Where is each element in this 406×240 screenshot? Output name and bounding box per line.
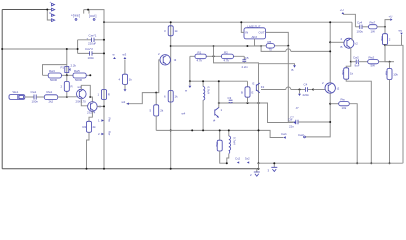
svg-text:Cx2: Cx2 xyxy=(235,157,241,161)
resistor R column104 xyxy=(98,90,110,100)
svg-text:IN: IN xyxy=(245,31,248,35)
svg-text:R1: R1 xyxy=(198,50,202,54)
wire wy output xyxy=(385,45,403,163)
wire top net to rail corner xyxy=(84,10,104,23)
svg-text:5x2: 5x2 xyxy=(245,157,250,161)
junction dot B xyxy=(87,9,89,11)
net flag +U right xyxy=(385,15,393,27)
net flag w2 xyxy=(122,100,129,105)
resistor R 389 column xyxy=(385,62,399,164)
svg-text:1W: 1W xyxy=(371,29,376,33)
resistor Rw7 xyxy=(369,21,386,34)
svg-text:F2: F2 xyxy=(261,85,265,89)
net flag w xyxy=(113,53,116,60)
transistor Tw1 2SK170 xyxy=(76,85,87,104)
wire left frame vertical xyxy=(1,10,3,169)
wire top-left net horizontal xyxy=(2,9,47,11)
svg-text:We1: We1 xyxy=(13,90,19,94)
wire column x=104 xyxy=(103,22,105,169)
svg-text:10k: 10k xyxy=(393,73,398,77)
wire column 218.8 xyxy=(218,81,220,103)
svg-text:Cw2: Cw2 xyxy=(353,55,359,59)
resistor R 10k emitter T6 xyxy=(330,98,357,164)
svg-text:100n: 100n xyxy=(88,56,95,60)
wire T2 collector up xyxy=(90,97,92,102)
wire jog down hop to T5 base column xyxy=(261,46,286,51)
wire OUT to column xyxy=(266,32,289,45)
svg-text:R2: R2 xyxy=(224,50,228,54)
transistor T4 glyph xyxy=(213,103,223,123)
inductor L1 xyxy=(203,81,210,130)
connector We input jack xyxy=(9,90,25,99)
wire T1 drain up xyxy=(81,85,90,97)
capacitor Cw1 xyxy=(31,90,39,103)
svg-text:+: + xyxy=(87,36,89,40)
wire pot loop xyxy=(43,65,67,76)
junction dot A xyxy=(46,9,48,11)
transistor T glyph column 258 xyxy=(253,64,265,164)
svg-text:1k: 1k xyxy=(129,78,133,82)
svg-text:+[we]: +[we] xyxy=(71,14,80,18)
svg-text:9uF: 9uF xyxy=(355,64,360,68)
wire T2 emitter down xyxy=(89,111,92,121)
svg-text:R: R xyxy=(108,93,110,97)
svg-text:[out]: [out] xyxy=(89,14,97,18)
svg-text:B: B xyxy=(241,91,243,95)
column x=170.7 xyxy=(170,22,172,169)
junction dot xyxy=(89,96,91,98)
junction dot 170/46 xyxy=(170,45,172,47)
svg-text:1.: 1. xyxy=(98,119,101,123)
svg-text:4.7k: 4.7k xyxy=(224,59,230,63)
net flag +U main xyxy=(340,8,356,27)
capacitor Cze2 branch xyxy=(78,52,104,54)
svg-text:Rw5: Rw5 xyxy=(74,69,80,73)
svg-text:75: 75 xyxy=(269,48,273,52)
wire cap-branch vertical xyxy=(77,40,79,54)
svg-text:2.2k: 2.2k xyxy=(71,64,77,68)
resistor R mid xyxy=(150,93,164,131)
svg-text:2.: 2. xyxy=(98,132,101,136)
capacitor C9 xyxy=(228,96,233,103)
wire T5 emitter resistor chain xyxy=(346,62,351,68)
svg-text:2SJ74: 2SJ74 xyxy=(87,111,96,115)
junction dot rail-104 xyxy=(103,21,105,23)
wire bottom right rail xyxy=(259,162,403,164)
wire T5 emitter down xyxy=(350,48,352,62)
svg-text:500R: 500R xyxy=(50,78,57,82)
svg-text:2.2m: 2.2m xyxy=(242,65,249,69)
wire base net y=89.5 xyxy=(261,89,286,91)
resistor R 247 column xyxy=(241,81,254,103)
junction dot right of Rw5 xyxy=(89,74,91,76)
ground G1 xyxy=(250,169,260,177)
net flag below xyxy=(189,81,191,85)
transistor T6 xyxy=(322,81,340,93)
resistor Rw5 xyxy=(67,69,91,82)
junction dot base net xyxy=(155,92,157,94)
svg-text:Cy4: Cy4 xyxy=(357,21,363,25)
svg-text:w2: w2 xyxy=(122,100,126,104)
net arrow flag Cw right end xyxy=(283,136,286,138)
svg-text:0.7uH: 0.7uH xyxy=(207,87,211,95)
net flag w3 with resistor xyxy=(119,53,133,92)
svg-text:LM317L/T: LM317L/T xyxy=(248,24,261,28)
resistor Rw6 xyxy=(83,121,97,132)
resistor Rw4 xyxy=(43,69,67,82)
svg-text:t2: t2 xyxy=(355,42,358,46)
wire main top rail xyxy=(104,21,352,23)
wire to flag B xyxy=(259,64,295,66)
wire T2 right to column xyxy=(97,105,104,107)
capacitor Cw2 xyxy=(351,55,368,67)
wire xyxy=(36,96,44,98)
svg-text:Cze*2: Cze*2 xyxy=(85,47,93,51)
junction dot input node xyxy=(66,96,68,98)
wire T5 base xyxy=(330,41,344,43)
net label Cw2 pin xyxy=(298,133,305,138)
transistor T3 xyxy=(158,52,177,65)
resistor R lower column170 xyxy=(164,91,178,103)
junction dots on rail130 xyxy=(170,129,172,131)
potentiometer P1 column xyxy=(66,49,68,75)
wire bottom-left ground rail xyxy=(2,168,258,170)
svg-text:Rw4: Rw4 xyxy=(49,69,55,73)
junction dot pot center xyxy=(66,74,68,76)
resistor R L2 parallel xyxy=(215,130,227,163)
svg-text:ADJ: ADJ xyxy=(252,35,258,39)
svg-text:+U: +U xyxy=(389,15,393,19)
svg-text:R: R xyxy=(71,85,73,89)
svg-text:t2: t2 xyxy=(337,87,340,91)
wire rail y=81.2 xyxy=(190,80,248,82)
svg-text:+U: +U xyxy=(340,8,344,12)
inductor L2 xyxy=(227,130,237,163)
svg-text:w4: w4 xyxy=(182,112,186,116)
svg-text:Cze*1: Cze*1 xyxy=(89,34,97,38)
svg-text:C5: C5 xyxy=(245,56,249,60)
svg-text:100u: 100u xyxy=(357,29,364,33)
svg-text:0.7uH: 0.7uH xyxy=(233,137,237,145)
capacitor Cze1 branch xyxy=(78,39,104,41)
ground G2 xyxy=(268,163,278,172)
svg-text:t4: t4 xyxy=(213,119,216,123)
junction dot xyxy=(299,89,301,91)
net flag J below xyxy=(299,90,301,94)
resistor R 385 column xyxy=(380,27,391,46)
svg-text:B: B xyxy=(341,45,343,49)
svg-text:C4: C4 xyxy=(304,83,308,87)
wire y=46 ADJ row xyxy=(171,45,261,47)
svg-text:P1: P1 xyxy=(61,66,65,70)
svg-text:Rw7: Rw7 xyxy=(370,21,376,25)
transistor T5 xyxy=(341,37,359,49)
junction dot rail130 extra xyxy=(191,129,193,131)
svg-text:5W: 5W xyxy=(371,64,376,68)
resistor R pot-lower xyxy=(61,75,73,97)
svg-text:E: E xyxy=(252,91,254,95)
svg-text:220uF: 220uF xyxy=(88,42,96,46)
svg-text:C3: C3 xyxy=(228,96,232,100)
wire mid rail y=130.4 xyxy=(156,130,283,137)
svg-text:w3: w3 xyxy=(123,53,127,57)
wire ADJ stub xyxy=(254,39,256,46)
junction dot left rail xyxy=(1,48,3,50)
wire to T6 base xyxy=(313,89,325,91)
connector K(out) xyxy=(89,10,97,21)
wire column x=288.3 down xyxy=(287,46,289,122)
svg-text:2k2: 2k2 xyxy=(49,100,54,104)
svg-text:B: B xyxy=(292,68,294,72)
resistor R top of column 170 xyxy=(164,26,178,36)
svg-text:J7: J7 xyxy=(296,106,299,110)
capacitor C5 xyxy=(242,56,249,69)
resistor R emitter xyxy=(341,68,353,79)
svg-text:R2: R2 xyxy=(83,125,87,129)
resistor R2 xyxy=(214,50,245,62)
wire T5 collector to rail end xyxy=(351,22,353,40)
net flags Cx2 5x2 xyxy=(235,157,250,164)
resistor R 75 xyxy=(255,40,289,52)
svg-text:t3: t3 xyxy=(174,58,177,62)
resistor Rw1 xyxy=(44,90,57,103)
junction dot xyxy=(77,48,79,50)
capacitor C 22n bottom of column xyxy=(288,116,330,129)
capacitor C4 xyxy=(303,83,314,98)
wire rail to IN xyxy=(241,22,244,32)
svg-text:E: E xyxy=(253,82,255,86)
wire input xyxy=(25,96,34,98)
wire flag drop xyxy=(47,10,51,21)
connector K(we) xyxy=(71,10,84,21)
wire link 385 to 389.5 xyxy=(385,45,390,61)
wire T3 base down xyxy=(127,60,160,104)
IC U1 LM317 xyxy=(244,24,266,39)
svg-text:10k: 10k xyxy=(342,106,347,110)
svg-text:wy: wy xyxy=(399,29,403,33)
svg-text:22n: 22n xyxy=(289,125,294,129)
wire to gate node xyxy=(58,96,77,98)
svg-text:Rw1: Rw1 xyxy=(47,90,53,94)
svg-text:220n: 220n xyxy=(303,93,310,97)
svg-text:Rw2: Rw2 xyxy=(369,55,375,59)
wire left mid rail xyxy=(2,48,77,50)
svg-text:+: + xyxy=(50,0,52,4)
wire T6 collector column xyxy=(329,22,331,83)
wire mid row y=103 xyxy=(219,103,293,123)
resistor Rw2 xyxy=(368,55,394,67)
capacitor Cy4 xyxy=(355,21,368,34)
svg-text:500R: 500R xyxy=(75,78,82,82)
wire T6 emitter down xyxy=(305,93,330,137)
resistor R1 xyxy=(190,50,214,62)
wire T1 source to T2 xyxy=(81,99,87,106)
wire R1 column xyxy=(189,56,191,81)
node flag pins on column104 xyxy=(98,118,112,123)
node flag arrows top-left xyxy=(49,0,55,22)
svg-text:4.7k: 4.7k xyxy=(197,59,203,63)
svg-text:R5: R5 xyxy=(268,40,272,44)
svg-text:OUT: OUT xyxy=(259,31,265,35)
wire y=62.9 xyxy=(214,46,259,64)
svg-text:100n: 100n xyxy=(32,100,39,104)
wire to bottom rail xyxy=(87,132,90,168)
transistor T2 xyxy=(87,102,101,115)
svg-text:Cw1: Cw1 xyxy=(281,132,287,136)
svg-text:Cw1: Cw1 xyxy=(31,90,37,94)
